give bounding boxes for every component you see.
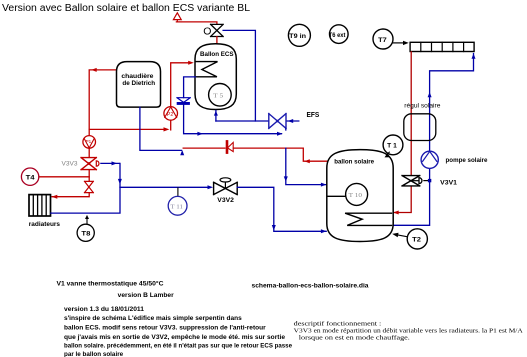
sensor T2 <box>407 229 427 249</box>
tank Ballon ECS <box>195 44 236 110</box>
valve blue ECS coil <box>177 98 190 103</box>
sensor T1 <box>383 135 403 155</box>
svg-text:V1 vanne thermostatique 45/50°: V1 vanne thermostatique 45/50°C <box>57 280 164 288</box>
controller regul solaire box <box>404 114 436 141</box>
svg-text:version B Lamber: version B Lamber <box>118 292 175 299</box>
wire blue EFS drop to solar tank upper port <box>286 129 326 185</box>
coil serpentin ECS <box>196 62 218 77</box>
arrow blue up into collector <box>472 54 476 59</box>
svg-text:Version avec Ballon solaire et: Version avec Ballon solaire et ballon EC… <box>2 3 250 14</box>
wire red mixer to ECS tank top <box>216 37 218 44</box>
svg-text:ballon ECS. modif sens retour: ballon ECS. modif sens retour V3V3. supp… <box>64 325 266 332</box>
wire blue solar cold riser <box>392 54 474 226</box>
sensor T7 <box>373 29 393 49</box>
wire red P1 to valve V3V3 <box>88 148 90 157</box>
arrow red into solar coil <box>393 211 399 215</box>
svg-text:T7: T7 <box>378 37 387 44</box>
wire blue V3V3 outlet <box>101 162 119 164</box>
arrow red toward P2 <box>164 127 170 131</box>
wire blue ECS valve to bottom line <box>184 105 282 134</box>
svg-text:V3V2: V3V2 <box>217 197 234 204</box>
wire black T11 stub <box>177 188 179 197</box>
arrow blue down to lower port <box>272 225 276 231</box>
sensor T5 <box>209 84 232 107</box>
wire red collector hot down <box>410 52 412 176</box>
pump P2 <box>164 107 178 121</box>
valve small red shutoff <box>85 181 94 192</box>
wire blue radiator return <box>51 163 120 213</box>
svg-text:P1: P1 <box>86 139 92 144</box>
arrow blue up into ECS tank <box>214 111 218 116</box>
arrow blue end bottom line <box>277 132 283 136</box>
svg-text:V3V1: V3V1 <box>440 180 457 187</box>
wire red P2 bottom stub <box>170 120 172 130</box>
svg-text:régul solaire: régul solaire <box>404 103 441 110</box>
svg-text:EFS: EFS <box>307 112 320 119</box>
wire red valve to radiator <box>52 193 89 197</box>
svg-text:T2: T2 <box>412 237 421 244</box>
svg-text:P2: P2 <box>167 112 173 118</box>
svg-text:de Dietrich: de Dietrich <box>122 80 155 87</box>
solar collector panel <box>410 42 474 51</box>
sensor T6 ext <box>330 25 349 44</box>
wire blue V3V2 to ballon solaire lower port <box>237 187 326 231</box>
svg-text:T 10: T 10 <box>349 192 362 199</box>
junction blue <box>428 179 431 182</box>
svg-text:ballon solaire. précédemment,: ballon solaire. précédemment, en été il … <box>64 342 292 349</box>
svg-text:T6 ext: T6 ext <box>329 32 346 39</box>
wire blue ECS coil return down <box>184 77 196 98</box>
arrow red into radiator <box>52 195 58 199</box>
svg-text:chaudière: chaudière <box>121 73 154 80</box>
pump pompe solaire <box>421 151 438 168</box>
wire red V3V1 to solar tank coil <box>394 186 412 212</box>
arrow blue V3V3 outlet right <box>112 161 118 165</box>
wire black V3V1 port to blue junction <box>424 180 430 182</box>
svg-text:T8: T8 <box>81 231 90 238</box>
sensor T9 in <box>288 24 310 46</box>
svg-text:par le ballon solaire: par le ballon solaire <box>64 351 124 357</box>
svg-text:V3V3 en mode répartition un dé: V3V3 en mode répartition un débit variab… <box>294 328 523 335</box>
arrow blue mid bottom line <box>197 132 203 136</box>
arrow red toward corner from tank <box>304 159 310 163</box>
arrow blue drop down <box>284 176 288 181</box>
wire red junction to check valve to ballon solaire <box>183 148 327 161</box>
coil serpentin solaire <box>345 213 391 225</box>
wire black T10 probe line <box>327 195 357 197</box>
arrow blue into V3V2 <box>208 185 214 189</box>
arrow black T1 to tank shoulder <box>387 152 390 155</box>
wire red V3V3 to small valve <box>88 170 90 182</box>
svg-text:V3V3: V3V3 <box>62 161 79 168</box>
svg-text:pompe solaire: pompe solaire <box>446 157 488 164</box>
valve V3V1 (3-way) <box>402 176 420 186</box>
svg-text:schema-ballon-ecs-ballon-solai: schema-ballon-ecs-ballon-solaire.dia <box>252 283 370 290</box>
wire blue main heating return to V3V2 <box>120 186 210 188</box>
svg-text:s'inspire de schéma L'édifice: s'inspire de schéma L'édifice mais simpl… <box>64 315 242 322</box>
wire red P2 up to ECS coil feed <box>171 63 190 107</box>
wire red T4 branch <box>39 176 89 178</box>
wire red vent line to mixing valve <box>176 22 217 24</box>
sensor T8 <box>77 224 94 241</box>
sensor T4 <box>21 168 38 185</box>
svg-text:T 11: T 11 <box>170 203 183 210</box>
pump P1 <box>83 136 96 149</box>
svg-text:radiateurs: radiateurs <box>29 221 60 228</box>
arrow red left into V3V3 column <box>91 68 97 72</box>
svg-text:T 5: T 5 <box>213 92 223 99</box>
svg-text:T 1: T 1 <box>387 143 397 150</box>
arrow blue into EFS valve <box>288 119 294 123</box>
svg-text:Ballon ECS: Ballon ECS <box>200 51 234 58</box>
valve EFS <box>269 114 286 129</box>
sensor T10 <box>346 183 368 205</box>
wire red cross line to pump P2 <box>89 128 163 130</box>
svg-text:que j'avais mis en sortie de V: que j'avais mis en sortie de V3V2, empêc… <box>64 334 286 341</box>
arrow blue up into junction <box>180 150 184 155</box>
wire red chaudiere-left to V3V3 column <box>89 70 116 136</box>
valve V1 thermostatic mixer <box>211 24 224 36</box>
tank ballon solaire <box>327 150 393 242</box>
safety vent triangle <box>173 13 181 22</box>
arrow blue into tank lower port <box>321 229 327 233</box>
svg-text:O: O <box>203 25 211 37</box>
arrow blue into tank upper port <box>321 183 327 187</box>
arrow black T2 to tank <box>398 235 408 237</box>
boiler chaudiere de Dietrich <box>117 62 161 108</box>
arrow blue elbow down to mixing point <box>118 179 122 185</box>
wire blue EFS supply <box>216 120 299 122</box>
arrow black T8 to return pipe <box>86 218 88 224</box>
svg-text:T4: T4 <box>26 175 35 182</box>
svg-text:T9 in: T9 in <box>289 33 306 40</box>
valve V3V2 motorised <box>214 182 238 194</box>
wire blue mixer tempering line <box>223 30 255 121</box>
radiator radiateurs <box>29 195 51 216</box>
wire blue EFS riser into ECS tank bottom <box>215 111 217 122</box>
svg-text:lorsque on est en mode chauffa: lorsque on est en mode chauffage. <box>299 335 410 342</box>
svg-text:version 1.3 du 18/01/2011: version 1.3 du 18/01/2011 <box>64 306 145 313</box>
svg-text:ballon solaire: ballon solaire <box>334 158 374 165</box>
arrow black T7 to collector <box>393 42 404 44</box>
valve V3V3 (3-way) <box>81 158 96 170</box>
arrow red into ECS coil <box>188 61 194 65</box>
arrow blue riser up <box>428 92 432 97</box>
wire blue chaudiere bottom to red junction <box>140 107 182 150</box>
sensor T11 <box>168 196 187 215</box>
svg-text:descriptif fonctionnement :: descriptif fonctionnement : <box>294 320 382 327</box>
check valve anti-retour <box>226 141 229 152</box>
